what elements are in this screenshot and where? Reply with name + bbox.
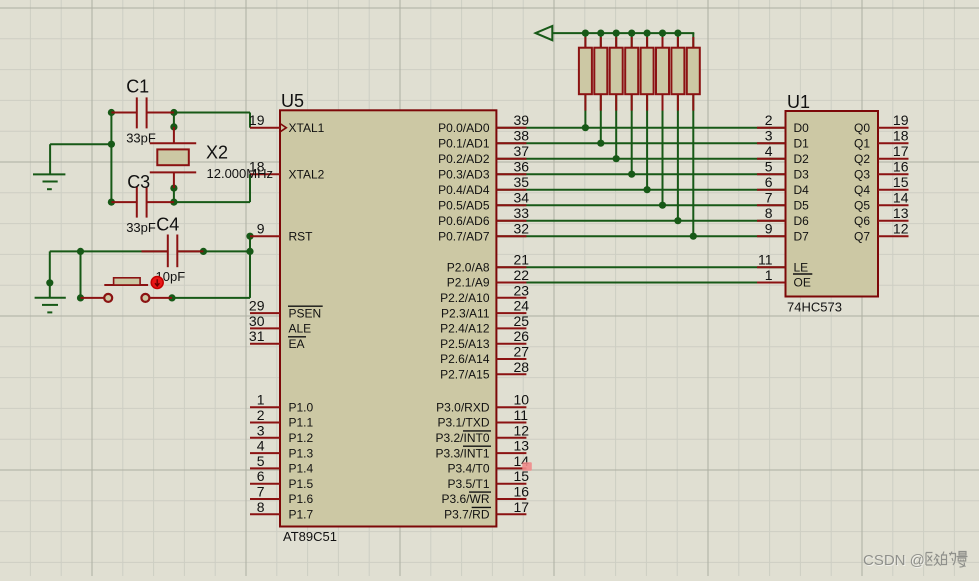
svg-text:3: 3 — [257, 422, 265, 438]
svg-text:PSEN: PSEN — [289, 306, 322, 320]
wire ground branch — [50, 144, 111, 173]
U5 reference label — [281, 91, 304, 111]
svg-text:19: 19 — [893, 112, 909, 128]
svg-text:U5: U5 — [281, 91, 304, 111]
svg-text:12.000MHz: 12.000MHz — [207, 166, 273, 181]
junction resistor 4 to P0.3 — [628, 171, 635, 178]
svg-text:18: 18 — [893, 128, 909, 144]
capacitor C3 — [111, 187, 173, 218]
junction resistor 3 to P0.2 — [613, 155, 620, 162]
U1 pin 9 D7 — [757, 221, 809, 244]
svg-text:6: 6 — [257, 468, 265, 484]
wire ground2 stem — [49, 251, 51, 297]
wire resistor 8 lead to P0.7 line — [692, 33, 694, 236]
U5 pin 17 P3.7/RD — [444, 499, 529, 522]
junction C4 right — [200, 248, 207, 255]
svg-text:D4: D4 — [794, 183, 810, 197]
junction pull-up rail 3 — [613, 29, 620, 36]
svg-text:4: 4 — [257, 438, 265, 454]
latch U1 74HC573 body — [786, 111, 879, 297]
svg-text:P2.7/A15: P2.7/A15 — [440, 368, 490, 382]
junction button left corner — [77, 294, 84, 301]
U5 pin 13 P3.3/INT1 — [435, 438, 529, 461]
svg-text:ALE: ALE — [289, 322, 312, 336]
wire C1 right to XTAL1 — [174, 113, 250, 128]
U5 pin 24 P2.3/A11 — [441, 298, 529, 321]
svg-text:P2.6/A14: P2.6/A14 — [440, 352, 490, 366]
svg-text:D0: D0 — [794, 121, 810, 135]
U5 pin 32 P0.7/AD7 — [438, 221, 529, 244]
resistor 4 (pull-up) — [625, 37, 638, 111]
svg-text:4: 4 — [765, 143, 773, 159]
wire C3 right to XTAL2 — [174, 174, 250, 202]
svg-text:17: 17 — [893, 143, 909, 159]
junction pull-up rail 7 — [674, 29, 681, 36]
U5 pin 4 P1.3 — [250, 438, 314, 461]
C3 value 33pF — [126, 220, 156, 235]
U5 pin 27 P2.6/A14 — [440, 344, 529, 367]
ground 1 — [33, 174, 65, 189]
svg-text:P1.4: P1.4 — [289, 462, 314, 476]
svg-text:9: 9 — [765, 221, 773, 237]
wire X2 top connection — [173, 113, 175, 129]
svg-text:7: 7 — [257, 484, 265, 500]
U5 pin 16 P3.6/WR — [441, 484, 529, 507]
U5 pin 26 P2.5/A13 — [440, 328, 529, 351]
U5 pin 11 P3.1/TXD — [437, 407, 528, 430]
wire button right to RST net — [172, 297, 250, 299]
U5 pin 6 P1.5 — [250, 468, 314, 491]
svg-text:1: 1 — [257, 392, 265, 408]
svg-text:24: 24 — [514, 298, 530, 314]
U5 pin 18 XTAL2 — [249, 159, 325, 182]
svg-text:Q3: Q3 — [854, 167, 870, 181]
svg-text:P0.2/AD2: P0.2/AD2 — [438, 152, 490, 166]
wire P2.0/A8 to U1 LE — [496, 266, 785, 268]
svg-text:C1: C1 — [126, 76, 149, 96]
junction pull-up rail 4 — [628, 29, 635, 36]
svg-text:28: 28 — [514, 359, 530, 375]
U1 pin 14 Q5 — [854, 190, 909, 213]
U5 pin 7 P1.6 — [250, 484, 314, 507]
U1 value label 74HC573 — [787, 300, 842, 315]
junction reset rail T — [246, 248, 253, 255]
junction button left T — [77, 248, 84, 255]
resistor 8 (pull-up) — [687, 37, 700, 111]
U5 pin 39 P0.0/AD0 — [438, 112, 529, 135]
U1 pin 12 Q7 — [854, 221, 909, 244]
svg-text:P0.0/AD0: P0.0/AD0 — [438, 121, 490, 135]
X2 reference label — [206, 143, 228, 163]
svg-text:OE: OE — [794, 276, 811, 290]
junction pull-up rail 5 — [644, 29, 651, 36]
bus terminal arrow — [536, 26, 553, 40]
U5 pin 10 P3.0/RXD — [436, 392, 529, 415]
svg-text:6: 6 — [765, 174, 773, 190]
svg-text:9: 9 — [257, 221, 265, 237]
U5 pin 15 P3.5/T1 — [447, 468, 529, 491]
wire reset top rail through C4 — [50, 250, 250, 252]
U5 pin 22 P2.1/A9 — [447, 267, 529, 290]
svg-text:Q1: Q1 — [854, 136, 870, 150]
svg-text:19: 19 — [249, 112, 265, 128]
U5 pin 9 RST — [250, 221, 313, 244]
resistor 1 (pull-up) — [579, 37, 592, 111]
U1 pin 17 Q2 — [854, 143, 909, 166]
U1 pin 8 D6 — [757, 205, 809, 228]
svg-text:Q6: Q6 — [854, 214, 870, 228]
svg-text:12: 12 — [514, 422, 530, 438]
svg-text:33pF: 33pF — [126, 220, 156, 235]
capacitor C4 — [142, 235, 204, 268]
U5 pin 37 P0.2/AD2 — [438, 143, 529, 166]
junction resistor 7 to P0.6 — [674, 217, 681, 224]
junction resistor 5 to P0.4 — [644, 186, 651, 193]
wire X2 bottom connection — [173, 187, 175, 203]
svg-text:8: 8 — [765, 205, 773, 221]
svg-text:CSDN @: CSDN @ — [863, 552, 925, 569]
svg-text:29: 29 — [249, 298, 265, 314]
U1 pin 18 Q1 — [854, 128, 909, 151]
svg-text:5: 5 — [257, 453, 265, 469]
svg-text:P0.1/AD1: P0.1/AD1 — [438, 136, 490, 150]
svg-text:P3.2/INT0: P3.2/INT0 — [435, 431, 489, 445]
U1 pin 2 D0 — [757, 112, 809, 135]
svg-text:11: 11 — [514, 407, 529, 423]
U5 pin 31 EA — [249, 328, 306, 351]
svg-text:P3.4/T0: P3.4/T0 — [447, 462, 489, 476]
svg-text:Q4: Q4 — [854, 183, 870, 197]
svg-text:74HC573: 74HC573 — [787, 300, 842, 315]
svg-text:P0.7/AD7: P0.7/AD7 — [438, 229, 490, 243]
U5 pin 28 P2.7/A15 — [440, 359, 529, 382]
U5 pin 29 PSEN — [249, 298, 323, 321]
svg-text:31: 31 — [249, 328, 265, 344]
junction C1 right — [170, 109, 177, 116]
svg-text:U1: U1 — [787, 92, 810, 112]
U5 pin 25 P2.4/A12 — [440, 313, 529, 336]
U5 pin 5 P1.4 — [250, 453, 314, 476]
U1 pin 13 Q6 — [854, 205, 909, 228]
junction button right — [168, 294, 175, 301]
svg-text:14: 14 — [893, 190, 909, 206]
svg-text:RST: RST — [289, 229, 314, 243]
svg-text:37: 37 — [514, 143, 530, 159]
svg-text:23: 23 — [514, 282, 530, 298]
U5 value label AT89C51 — [283, 529, 337, 544]
svg-text:D3: D3 — [794, 167, 810, 181]
resistor 7 (pull-up) — [671, 37, 684, 111]
C3 reference label — [127, 172, 150, 192]
U5 pin 33 P0.6/AD6 — [438, 205, 529, 228]
wire resistor 4 lead to P0.3 line — [631, 33, 633, 174]
svg-text:25: 25 — [514, 313, 530, 329]
svg-text:16: 16 — [514, 484, 530, 500]
junction X2 top — [170, 123, 177, 130]
svg-text:C4: C4 — [156, 214, 179, 234]
svg-text:P2.1/A9: P2.1/A9 — [447, 276, 490, 290]
svg-text:12: 12 — [893, 221, 909, 237]
svg-text:Q5: Q5 — [854, 198, 870, 212]
U5 pin 35 P0.4/AD4 — [438, 174, 529, 197]
svg-text:P0.3/AD3: P0.3/AD3 — [438, 167, 490, 181]
U1 pin 1 OE — [757, 267, 812, 290]
wire left vertical C1-C3 — [110, 113, 112, 203]
svg-text:P1.5: P1.5 — [289, 477, 314, 491]
watermark CJK glyphs — [926, 552, 968, 568]
U1 pin 5 D3 — [757, 159, 809, 182]
junction pull-up rail 2 — [597, 29, 604, 36]
wire pull-up bus top rail — [552, 32, 694, 34]
svg-text:8: 8 — [257, 499, 265, 515]
svg-text:XTAL2: XTAL2 — [289, 167, 325, 181]
U1 pin 15 Q4 — [854, 174, 909, 197]
op-amp U5 AT89C51 body — [280, 110, 496, 526]
svg-text:AT89C51: AT89C51 — [283, 529, 337, 544]
U5 pin 23 P2.2/A10 — [440, 282, 529, 305]
U5 pin 1 P1.0 — [250, 392, 314, 415]
U5 pin 34 P0.5/AD5 — [438, 190, 529, 213]
svg-text:P3.5/T1: P3.5/T1 — [447, 477, 489, 491]
junction X2 bottom — [170, 185, 177, 192]
junction resistor 6 to P0.5 — [659, 202, 666, 209]
svg-text:P3.6/WR: P3.6/WR — [441, 492, 489, 506]
svg-text:17: 17 — [514, 499, 530, 515]
U1 pin 7 D5 — [757, 190, 809, 213]
svg-text:27: 27 — [514, 344, 530, 360]
U1 pin 6 D4 — [757, 174, 809, 197]
svg-text:7: 7 — [765, 190, 773, 206]
svg-text:P2.0/A8: P2.0/A8 — [447, 260, 490, 274]
svg-text:P3.3/INT1: P3.3/INT1 — [435, 446, 489, 460]
U5 pin 19 XTAL1 — [249, 112, 325, 135]
wire resistor 7 lead to P0.6 line — [677, 33, 679, 221]
svg-text:21: 21 — [514, 252, 530, 268]
svg-text:13: 13 — [893, 205, 909, 221]
U5 pin 3 P1.2 — [250, 422, 314, 445]
push button (reset) — [81, 278, 173, 302]
wire button left branch — [81, 251, 83, 298]
junction ground branch — [108, 141, 115, 148]
U1 pin 16 Q3 — [854, 159, 909, 182]
svg-text:Q7: Q7 — [854, 229, 870, 243]
U5 pin 8 P1.7 — [250, 499, 314, 522]
svg-text:15: 15 — [893, 174, 909, 190]
svg-text:P3.1/TXD: P3.1/TXD — [437, 416, 489, 430]
U1 pin 11 LE — [757, 252, 808, 275]
svg-text:P2.5/A13: P2.5/A13 — [440, 337, 490, 351]
junction resistor 2 to P0.1 — [597, 140, 604, 147]
svg-text:2: 2 — [257, 407, 265, 423]
resistor 2 (pull-up) — [594, 37, 607, 111]
X2 value 12.000MHz — [207, 166, 273, 181]
wire resistor 5 lead to P0.4 line — [646, 33, 648, 190]
svg-text:35: 35 — [514, 174, 530, 190]
wire resistor 3 lead to P0.2 line — [615, 33, 617, 159]
svg-text:P2.3/A11: P2.3/A11 — [441, 306, 490, 320]
svg-text:EA: EA — [289, 337, 305, 351]
svg-text:P1.3: P1.3 — [289, 446, 314, 460]
U5 pin 14 P3.4/T0 — [447, 453, 529, 476]
C4 value 10pF — [156, 269, 186, 284]
svg-text:D2: D2 — [794, 152, 810, 166]
U5 XTAL1 clock marker — [280, 124, 286, 132]
ground 2 — [35, 298, 66, 313]
junction resistor 1 to P0.0 — [582, 124, 589, 131]
svg-text:38: 38 — [514, 128, 530, 144]
wire resistor 2 lead to P0.1 line — [600, 33, 602, 143]
button actuator marker — [151, 277, 163, 289]
svg-text:2: 2 — [765, 112, 773, 128]
svg-text:1: 1 — [765, 267, 773, 283]
junction resistor 8 to P0.7 — [690, 233, 697, 240]
C4 reference label — [156, 214, 179, 234]
watermark CSDN — [863, 552, 926, 570]
junction pull-up rail 6 — [659, 29, 666, 36]
svg-text:10: 10 — [514, 392, 530, 408]
U1 pin 3 D1 — [757, 128, 809, 151]
svg-text:11: 11 — [758, 252, 773, 268]
U5 pin 38 P0.1/AD1 — [438, 128, 529, 151]
svg-text:XTAL1: XTAL1 — [289, 121, 325, 135]
selection highlight on pin 14 — [522, 462, 532, 470]
svg-text:P2.4/A12: P2.4/A12 — [440, 322, 490, 336]
resistor 3 (pull-up) — [610, 37, 623, 111]
wire P0.0-P0.7 bus to U1 D0-D7 — [496, 128, 785, 237]
svg-text:P1.6: P1.6 — [289, 492, 314, 506]
svg-text:D1: D1 — [794, 136, 810, 150]
svg-text:LE: LE — [794, 260, 809, 274]
svg-text:P3.0/RXD: P3.0/RXD — [436, 400, 490, 414]
U5 pin 36 P0.3/AD3 — [438, 159, 529, 182]
svg-text:16: 16 — [893, 159, 909, 175]
U1 pin 19 Q0 — [854, 112, 909, 135]
svg-text:36: 36 — [514, 159, 530, 175]
svg-text:13: 13 — [514, 438, 530, 454]
svg-text:X2: X2 — [206, 143, 228, 163]
svg-text:P1.2: P1.2 — [289, 431, 314, 445]
svg-text:P0.6/AD6: P0.6/AD6 — [438, 214, 490, 228]
svg-text:P1.7: P1.7 — [289, 508, 314, 522]
junction ground2 stem — [46, 279, 53, 286]
junction RST pin — [246, 233, 253, 240]
crystal X2 — [150, 127, 196, 188]
svg-text:P1.0: P1.0 — [289, 400, 314, 414]
svg-text:5: 5 — [765, 159, 773, 175]
U5 pin 2 P1.1 — [250, 407, 314, 430]
svg-text:C3: C3 — [127, 172, 150, 192]
resistor 6 (pull-up) — [656, 37, 669, 111]
svg-text:Q2: Q2 — [854, 152, 870, 166]
svg-text:P1.1: P1.1 — [289, 416, 314, 430]
svg-text:33: 33 — [514, 205, 530, 221]
svg-text:26: 26 — [514, 328, 530, 344]
svg-text:Q0: Q0 — [854, 121, 870, 135]
svg-text:39: 39 — [514, 112, 530, 128]
svg-text:P3.7/RD: P3.7/RD — [444, 508, 490, 522]
svg-text:34: 34 — [514, 190, 530, 206]
junction pull-up rail 1 — [582, 29, 589, 36]
svg-text:32: 32 — [514, 221, 530, 237]
svg-text:P2.2/A10: P2.2/A10 — [440, 291, 490, 305]
svg-text:P0.5/AD5: P0.5/AD5 — [438, 198, 490, 212]
U5 pin 30 ALE — [249, 313, 311, 336]
junction C3 right — [170, 199, 177, 206]
svg-text:D7: D7 — [794, 229, 810, 243]
C1 value 33pF — [126, 130, 156, 145]
wire resistor 1 lead to P0.0 line — [584, 33, 586, 128]
junction C1 left — [108, 109, 115, 116]
svg-text:D6: D6 — [794, 214, 810, 228]
svg-text:22: 22 — [514, 267, 530, 283]
junction C3 left — [108, 199, 115, 206]
U5 pin 21 P2.0/A8 — [447, 252, 529, 275]
svg-text:D5: D5 — [794, 198, 810, 212]
wire resistor 6 lead to P0.5 line — [662, 33, 664, 205]
C1 reference label — [126, 76, 149, 96]
wire P2.1/A9 to U1 OE — [496, 282, 785, 284]
U1 reference label — [787, 92, 810, 112]
U5 pin 12 P3.2/INT0 — [435, 422, 529, 445]
U1 pin 4 D2 — [757, 143, 809, 166]
svg-text:30: 30 — [249, 313, 265, 329]
capacitor C1 — [111, 97, 173, 128]
svg-text:3: 3 — [765, 128, 773, 144]
resistor 5 (pull-up) — [641, 37, 654, 111]
wire RST vertical — [249, 236, 251, 298]
svg-text:P0.4/AD4: P0.4/AD4 — [438, 183, 490, 197]
